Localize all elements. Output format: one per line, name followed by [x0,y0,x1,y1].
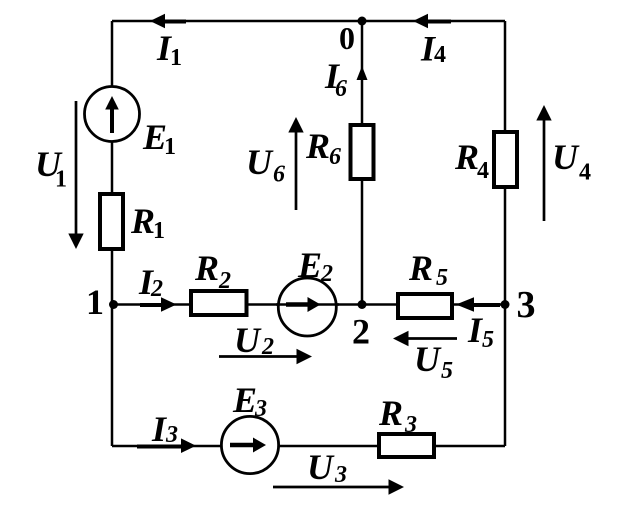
svg-text:U: U [234,320,262,360]
svg-text:4: 4 [477,158,489,184]
svg-text:1: 1 [164,134,176,160]
svg-text:5: 5 [436,265,448,291]
svg-text:6: 6 [273,162,285,188]
svg-text:E: E [297,245,322,285]
svg-text:6: 6 [335,76,347,102]
svg-text:1: 1 [86,282,104,322]
svg-text:U: U [552,137,580,177]
svg-text:E: E [232,380,257,420]
svg-text:4: 4 [434,42,446,68]
svg-text:5: 5 [482,327,494,353]
svg-text:1: 1 [170,45,182,71]
svg-text:U: U [246,142,274,182]
svg-text:R: R [305,126,330,166]
svg-text:R: R [408,248,433,288]
svg-text:2: 2 [261,334,274,360]
svg-text:4: 4 [579,160,591,186]
svg-text:U: U [307,447,335,487]
svg-text:R: R [378,393,403,433]
svg-text:3: 3 [404,412,417,438]
svg-text:U: U [414,339,442,379]
svg-text:3: 3 [254,396,267,422]
svg-text:1: 1 [153,218,165,244]
svg-text:R: R [194,248,219,288]
svg-text:2: 2 [218,268,231,294]
svg-text:5: 5 [441,358,453,384]
svg-text:2: 2 [150,276,163,302]
svg-text:3: 3 [165,422,178,448]
svg-text:R: R [454,137,479,177]
svg-text:2: 2 [320,261,333,287]
svg-text:3: 3 [517,284,536,326]
svg-text:2: 2 [352,312,370,352]
svg-text:1: 1 [55,167,67,193]
svg-text:6: 6 [329,144,341,170]
svg-text:0: 0 [339,20,355,56]
svg-text:3: 3 [334,462,347,488]
svg-text:R: R [130,201,155,241]
